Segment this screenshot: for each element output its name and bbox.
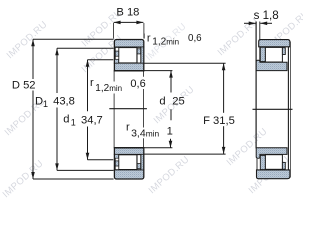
cage bar left (top section) xyxy=(115,51,118,56)
inner ring mid band upper (right view) xyxy=(256,60,287,70)
dimension D1 43,8 xyxy=(35,48,114,170)
cage slot right (top section) xyxy=(137,48,141,63)
bore side face line right (between sections) xyxy=(143,71,145,147)
roller (right view upper) xyxy=(265,47,282,62)
cage bar right (right view lower) xyxy=(282,162,285,169)
dimension B 18 xyxy=(114,7,144,39)
inner ring side face line (right view lower left) xyxy=(256,159,258,170)
inner ring raceway line (bottom section) xyxy=(114,153,145,155)
svg-text:IMPOD.RU: IMPOD.RU xyxy=(5,19,50,61)
svg-text:s 1,8: s 1,8 xyxy=(254,9,279,22)
svg-text:r: r xyxy=(126,122,130,134)
inner ring raceway line (top section) xyxy=(114,62,145,64)
outer ring bottom band (right view) xyxy=(257,170,290,179)
roller (right view lower) xyxy=(265,155,282,170)
svg-text:D 52: D 52 xyxy=(12,80,36,92)
inner ring side face line (right view left edge) xyxy=(255,22,257,149)
svg-text:r: r xyxy=(147,33,151,45)
svg-text:43,8: 43,8 xyxy=(53,96,75,108)
dimension d1 34,7 xyxy=(63,60,113,160)
roller (top section) xyxy=(119,48,137,63)
svg-text:0,6: 0,6 xyxy=(188,33,202,44)
label r 1,2min 0,6 (middle) xyxy=(90,77,146,94)
inner ring bore line (bottom section) xyxy=(114,147,145,149)
svg-text:1: 1 xyxy=(43,99,48,109)
svg-text:25: 25 xyxy=(172,95,184,107)
label r 1,2min 0,6 (top right) xyxy=(144,33,202,48)
outer ring flange inner face right (bottom section) xyxy=(140,154,142,170)
inner ring mid band lower (right view) xyxy=(256,148,287,159)
axis line (left view) xyxy=(109,108,147,110)
svg-text:3,4min: 3,4min xyxy=(131,128,159,140)
svg-text:1,2min: 1,2min xyxy=(95,83,122,94)
svg-text:34,7: 34,7 xyxy=(81,114,103,126)
dimension s 1,8 xyxy=(244,9,279,25)
cage slot right (bottom section) xyxy=(137,155,141,170)
svg-text:F 31,5: F 31,5 xyxy=(203,115,235,127)
outer ring top band (right view) xyxy=(259,40,290,47)
svg-text:r: r xyxy=(90,77,94,89)
cage bar left (right view lower) xyxy=(260,155,265,169)
cage slot left (bottom section) xyxy=(115,158,118,169)
cage slot left (top section) xyxy=(115,48,118,60)
cage bar right (right view upper) xyxy=(282,48,285,55)
svg-text:1: 1 xyxy=(71,117,76,127)
inner ring bore line (top section) xyxy=(114,70,145,72)
cage bar right (top section) xyxy=(137,49,141,54)
svg-text:1,2min: 1,2min xyxy=(152,37,179,48)
watermark IMPOD.RU top-left xyxy=(1,7,312,200)
outer ring outer surface line (right view right side) xyxy=(289,42,291,178)
cage bar left (bottom section) xyxy=(115,161,118,166)
svg-text:IMPOD.RU: IMPOD.RU xyxy=(216,16,261,58)
label 1 (flange offset) xyxy=(167,126,173,138)
svg-text:IMPOD.RU: IMPOD.RU xyxy=(147,154,192,196)
svg-text:D: D xyxy=(35,96,43,108)
svg-text:0,6: 0,6 xyxy=(130,78,145,90)
dimension d 25 xyxy=(144,71,184,148)
outer ring band bottom line (top section) xyxy=(114,46,145,48)
outer ring side face line (right view, upper left) xyxy=(259,22,261,62)
outer ring flange inner face right (top section) xyxy=(140,47,142,63)
cage bar right (bottom section) xyxy=(137,164,141,169)
svg-text:d: d xyxy=(159,95,165,107)
dimension D 52 xyxy=(12,39,114,179)
outer+inner ring top section body xyxy=(114,40,143,71)
svg-text:1: 1 xyxy=(167,126,173,138)
outer ring band top line (bottom section) xyxy=(114,169,145,171)
label r 3,4min xyxy=(126,122,160,140)
cage bar left (right view upper) xyxy=(260,47,265,61)
bore side face line left (between sections) xyxy=(113,71,115,147)
svg-text:B 18: B 18 xyxy=(116,7,139,19)
dimension F 31,5 xyxy=(144,63,234,154)
roller (bottom section) xyxy=(119,155,137,170)
svg-text:d: d xyxy=(63,114,69,126)
outer+inner ring bottom section body xyxy=(114,148,143,179)
outer ring inner face line (right view right side) xyxy=(287,47,289,170)
axis line (right view) xyxy=(253,108,293,110)
